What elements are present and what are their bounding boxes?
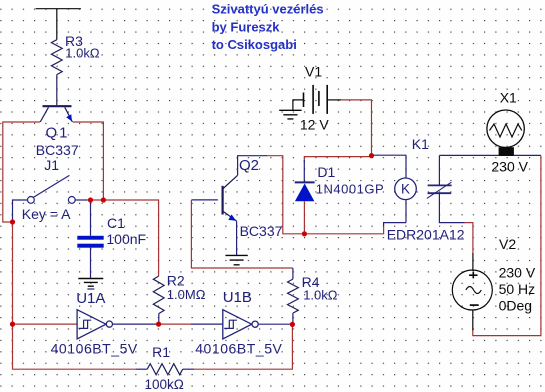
svg-text:40106BT_5V: 40106BT_5V bbox=[51, 341, 138, 357]
svg-text:to Csikosgabi: to Csikosgabi bbox=[212, 37, 297, 52]
svg-text:D1: D1 bbox=[317, 164, 335, 180]
svg-text:EDR201A12: EDR201A12 bbox=[387, 226, 465, 242]
svg-text:1.0kΩ: 1.0kΩ bbox=[303, 287, 338, 302]
svg-text:100kΩ: 100kΩ bbox=[145, 377, 184, 392]
svg-text:1.0kΩ: 1.0kΩ bbox=[65, 45, 100, 60]
svg-text:12 V: 12 V bbox=[300, 116, 329, 132]
svg-text:U1A: U1A bbox=[76, 290, 105, 307]
svg-text:C1: C1 bbox=[107, 215, 125, 231]
svg-text:50 Hz: 50 Hz bbox=[499, 281, 536, 297]
svg-text:by Fureszk: by Fureszk bbox=[212, 19, 281, 34]
svg-text:BC337: BC337 bbox=[36, 142, 79, 158]
svg-text:R2: R2 bbox=[167, 272, 185, 288]
svg-text:X1: X1 bbox=[500, 89, 517, 105]
svg-text:V1: V1 bbox=[305, 64, 322, 80]
svg-text:K1: K1 bbox=[412, 136, 429, 152]
svg-text:1.0MΩ: 1.0MΩ bbox=[167, 287, 206, 302]
svg-text:BC337: BC337 bbox=[240, 223, 283, 239]
svg-text:100nF: 100nF bbox=[106, 231, 146, 247]
svg-text:230 V: 230 V bbox=[491, 159, 528, 175]
svg-text:Szivattyú vezérlés: Szivattyú vezérlés bbox=[212, 1, 324, 16]
svg-text:U1B: U1B bbox=[223, 289, 252, 306]
svg-text:Q2: Q2 bbox=[239, 157, 259, 174]
svg-text:Key = A: Key = A bbox=[22, 206, 71, 222]
svg-text:K: K bbox=[401, 182, 410, 197]
svg-text:40106BT_5V: 40106BT_5V bbox=[195, 341, 282, 357]
svg-text:0Deg: 0Deg bbox=[499, 297, 532, 313]
svg-text:V2: V2 bbox=[499, 236, 516, 252]
svg-text:230 V: 230 V bbox=[499, 264, 536, 280]
svg-text:J1: J1 bbox=[44, 157, 59, 173]
svg-text:R1: R1 bbox=[152, 344, 170, 360]
svg-text:1N4001GP: 1N4001GP bbox=[316, 181, 384, 196]
svg-text:Q1: Q1 bbox=[46, 124, 70, 141]
